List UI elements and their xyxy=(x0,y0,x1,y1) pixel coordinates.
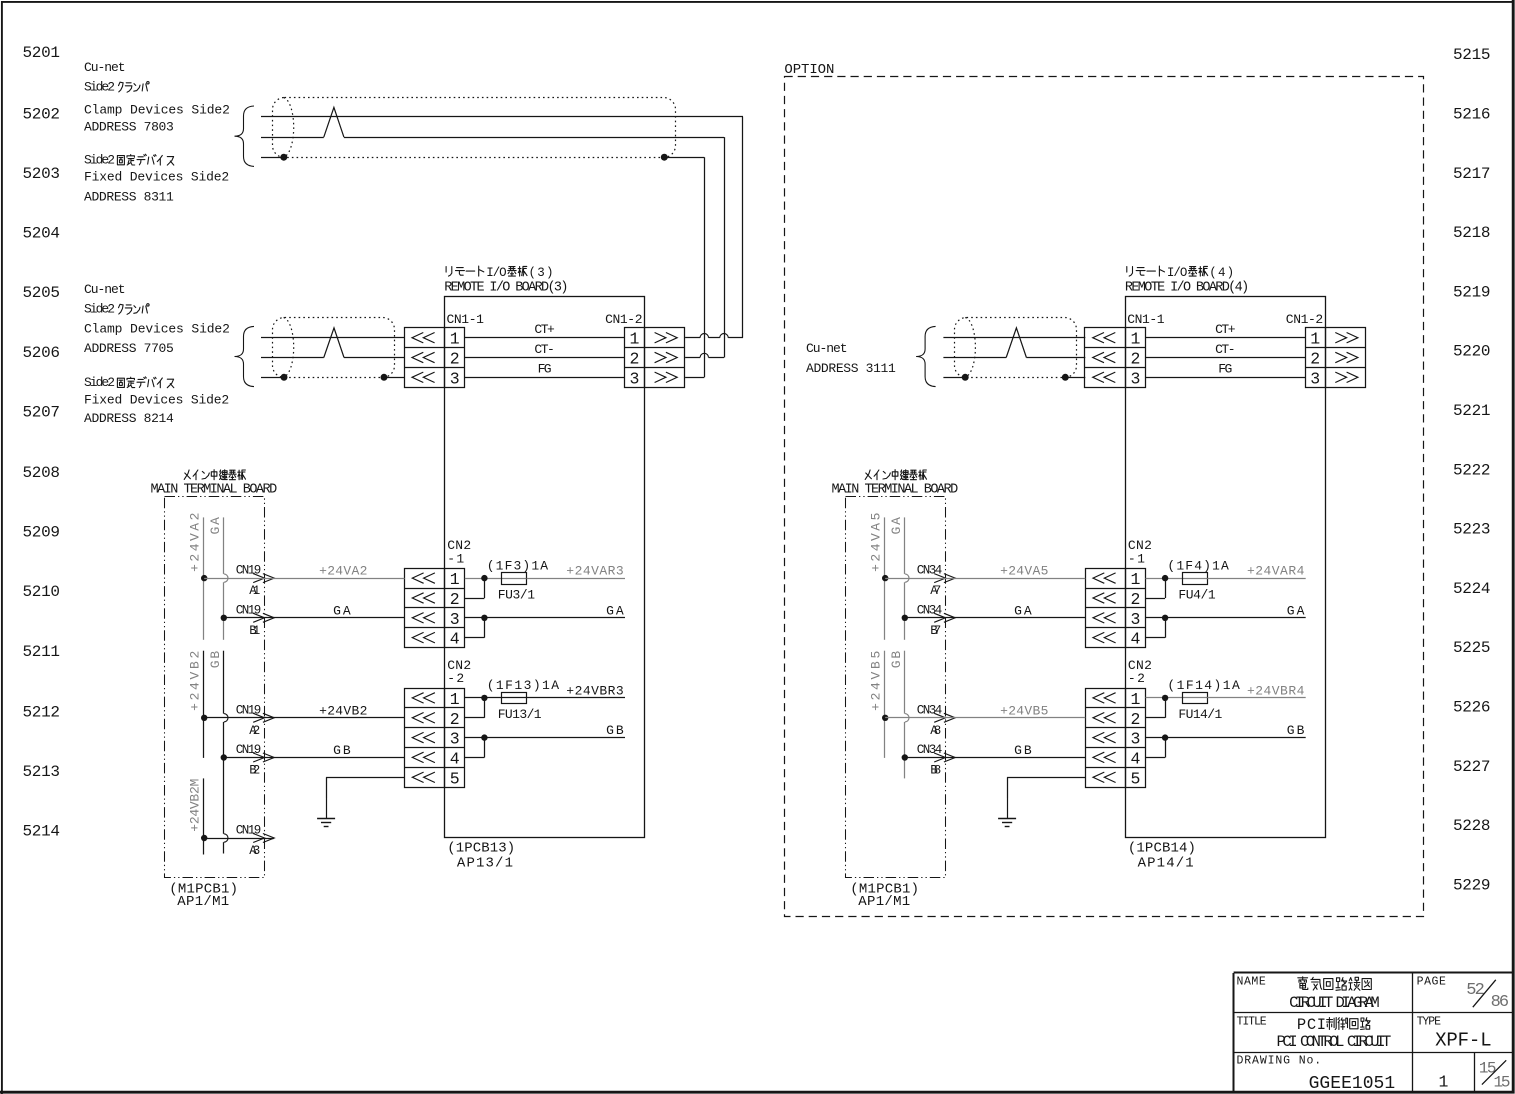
svg-text:3: 3 xyxy=(1130,610,1140,629)
right wire CN2-2 pin5 to ground xyxy=(1007,777,1085,798)
wire cable1 conductor A xyxy=(261,116,743,118)
svg-text:A7: A7 xyxy=(930,584,941,598)
wire cable3 conductor B with crossover xyxy=(943,328,1085,358)
svg-text:5227: 5227 xyxy=(1453,758,1491,776)
svg-text:1: 1 xyxy=(1130,690,1140,709)
svg-text:CT-: CT- xyxy=(534,342,554,357)
svg-text:86: 86 xyxy=(1491,993,1510,1012)
svg-text:Clamp Devices Side2: Clamp Devices Side2 xyxy=(84,322,230,337)
right main terminal board outline (M1PCB1) xyxy=(846,497,946,878)
svg-text:5201: 5201 xyxy=(23,44,61,62)
kanji fixed-device label xyxy=(117,154,173,165)
left terminal arrow CN19 A2 xyxy=(236,703,274,738)
svg-text:1: 1 xyxy=(1130,570,1140,589)
connector CN1-1 board(4) xyxy=(1085,328,1146,389)
svg-text:+24VA2: +24VA2 xyxy=(188,513,203,572)
right jumper CN2-2 pin3 to pin4 xyxy=(1146,738,1166,758)
title field TYPE XPF-L xyxy=(1417,1015,1492,1051)
wire drop CT+ to CN1-2 xyxy=(742,117,744,338)
svg-text:(1F3)1A: (1F3)1A xyxy=(487,558,549,573)
wire CT- board(4) xyxy=(1145,342,1305,358)
svg-text:5217: 5217 xyxy=(1453,165,1491,183)
svg-text:5212: 5212 xyxy=(23,703,61,721)
svg-text:CN1-2: CN1-2 xyxy=(1286,312,1323,327)
grid reference numbers right column xyxy=(1453,46,1491,894)
svg-text:5205: 5205 xyxy=(23,284,61,302)
right jumper CN2-1 pin1 to pin2 xyxy=(1146,578,1166,598)
svg-text:5203: 5203 xyxy=(23,165,61,183)
right junction GA xyxy=(902,615,908,621)
wire FG board(4) xyxy=(1145,362,1305,378)
svg-text:PAGE: PAGE xyxy=(1417,975,1446,988)
left jumper CN2-1 pin1 to pin2 xyxy=(465,578,485,598)
cable shield 3 (dotted) xyxy=(955,318,1077,378)
brace cable3 xyxy=(916,326,936,386)
svg-text:1: 1 xyxy=(1439,1073,1449,1092)
wire CT- board(3) xyxy=(465,342,625,358)
svg-text:Fixed Devices Side2: Fixed Devices Side2 xyxy=(84,170,229,185)
left wire GB (terminal to CN2-2 pin4) xyxy=(224,743,405,758)
svg-text:(1PCB14): (1PCB14) xyxy=(1128,840,1196,856)
svg-text:GB: GB xyxy=(606,723,624,738)
right fuse FU14/1 (1F14)1A xyxy=(1167,678,1240,722)
svg-text:(4): (4) xyxy=(1209,266,1234,280)
svg-text:5210: 5210 xyxy=(23,583,61,601)
right wire GB (CN2-2 pin3 output) xyxy=(1146,723,1306,738)
junction shield-right cable2 xyxy=(381,374,388,381)
junction shield-right cable1 xyxy=(661,154,668,161)
left junction CN2-2 pin3 xyxy=(481,734,487,740)
svg-text:5202: 5202 xyxy=(23,105,61,123)
wire CN1-2 pin2 to drop xyxy=(685,357,724,359)
right fuse FU4/1 (1F4)1A xyxy=(1167,558,1229,602)
svg-text:FG: FG xyxy=(1218,362,1232,377)
wire cable3 shield xyxy=(943,377,1085,379)
svg-text:5214: 5214 xyxy=(23,823,61,841)
svg-text:FU3/1: FU3/1 xyxy=(498,587,535,602)
svg-text:XPF-L: XPF-L xyxy=(1435,1029,1492,1051)
right wire CN2-1 pin1 to fuse FU4/1 xyxy=(1146,578,1183,580)
svg-text:TITLE: TITLE xyxy=(1237,1015,1267,1028)
brace cable2 xyxy=(235,326,255,386)
svg-text:+24VAR4: +24VAR4 xyxy=(1247,564,1305,579)
svg-text:5208: 5208 xyxy=(23,464,61,482)
connector CN2-2 board(4) label xyxy=(1128,658,1152,686)
wire drop FG to CN1-2 xyxy=(704,157,706,377)
left ground xyxy=(326,798,328,818)
svg-text:GA: GA xyxy=(208,517,223,535)
svg-text:+24VA2: +24VA2 xyxy=(319,564,367,579)
cable shield 1 (dotted) xyxy=(273,98,676,158)
svg-text:5207: 5207 xyxy=(23,404,61,422)
svg-text:CT-: CT- xyxy=(1215,342,1235,357)
svg-text:2: 2 xyxy=(450,350,460,369)
svg-text:B2: B2 xyxy=(249,764,260,778)
svg-text:A8: A8 xyxy=(930,724,941,738)
left hop GB vertical over A3 wire xyxy=(224,834,228,842)
left terminal arrow CN19 A3 xyxy=(236,824,274,859)
cable shield 2 (dotted) xyxy=(273,318,395,378)
connector CN1-2 board(3) xyxy=(625,328,685,389)
wire CN1-2 pin3 to drop xyxy=(685,377,704,379)
svg-text:+24VBR4: +24VBR4 xyxy=(1247,683,1305,698)
left bus +24V A vertical xyxy=(203,517,205,639)
board(3) JP name label xyxy=(446,266,553,280)
svg-text:5218: 5218 xyxy=(1453,224,1491,242)
svg-text:GGEE1051: GGEE1051 xyxy=(1309,1074,1396,1094)
katakana kuranpa label xyxy=(119,82,150,93)
left hop GB vertical over +24V B wire xyxy=(224,714,228,722)
svg-text:5229: 5229 xyxy=(1453,876,1491,894)
left bus GB vertical xyxy=(223,651,225,854)
svg-text:2: 2 xyxy=(450,590,460,609)
svg-text:3: 3 xyxy=(450,730,460,749)
svg-text:AP13/1: AP13/1 xyxy=(457,856,513,872)
right wire +24VB5 (terminal to CN2-2 pin2) xyxy=(885,703,1085,718)
left wire +24VA2 (terminal to CN2-1 pin1) xyxy=(204,564,404,579)
cable label Cu-net (3111) xyxy=(806,341,896,376)
left bus +24V B vertical xyxy=(203,651,205,758)
svg-text:+24VBR3: +24VBR3 xyxy=(566,683,623,698)
svg-text:+24VB2: +24VB2 xyxy=(188,651,203,711)
svg-text:+24VB5: +24VB5 xyxy=(1000,703,1048,718)
svg-text:B7: B7 xyxy=(930,624,941,638)
svg-text:Side2: Side2 xyxy=(84,375,115,390)
title block xyxy=(1234,973,1514,1092)
svg-text:I/O: I/O xyxy=(486,266,507,280)
svg-text:2: 2 xyxy=(1130,590,1140,609)
title field PAGE 52/86 xyxy=(1417,975,1510,1012)
wire CN1-2 pin1 to drop xyxy=(685,337,743,339)
svg-text:GB: GB xyxy=(889,651,904,669)
right hop GB vertical over +24V B wire xyxy=(905,714,909,722)
svg-text:REMOTE I/O BOARD(4): REMOTE I/O BOARD(4) xyxy=(1125,280,1249,295)
svg-text:ADDRESS 3111: ADDRESS 3111 xyxy=(806,361,896,376)
right junction CN2-2 pin1 xyxy=(1162,695,1168,701)
svg-text:CIRCUIT DIAGRAM: CIRCUIT DIAGRAM xyxy=(1289,994,1380,1012)
left wire CN2-2 pin1 to fuse FU13/1 xyxy=(465,697,502,699)
svg-text:I/O: I/O xyxy=(1167,266,1188,280)
svg-text:Side2: Side2 xyxy=(84,302,115,317)
svg-text:+24VB5: +24VB5 xyxy=(869,651,884,711)
left wire +24VBR3 (fused output) xyxy=(527,683,626,698)
svg-text:A1: A1 xyxy=(249,584,260,598)
svg-text:GA: GA xyxy=(889,517,904,535)
right terminal arrow CN34 A7 xyxy=(917,564,955,599)
left junction +24VB2M xyxy=(201,835,207,841)
left terminal arrow CN19 A1 xyxy=(236,564,274,599)
connector CN2-2 board(3) xyxy=(405,688,465,788)
svg-text:5: 5 xyxy=(1130,769,1140,788)
svg-text:MAIN TERMINAL BOARD: MAIN TERMINAL BOARD xyxy=(151,482,278,497)
svg-text:A3: A3 xyxy=(249,844,260,858)
connector CN2-1 board(4) xyxy=(1085,568,1145,648)
svg-text:5209: 5209 xyxy=(23,524,61,542)
connector CN2-1 board(4) label xyxy=(1128,538,1152,566)
svg-text:GA: GA xyxy=(1287,603,1305,618)
svg-text:PCI: PCI xyxy=(1297,1016,1326,1034)
svg-text:+24VA5: +24VA5 xyxy=(1000,564,1048,579)
svg-text:4: 4 xyxy=(1130,630,1140,649)
hop CT+ wire over FG drop xyxy=(700,334,708,338)
svg-text:5216: 5216 xyxy=(1453,106,1491,124)
left junction +24V B xyxy=(201,715,207,721)
svg-text:15: 15 xyxy=(1494,1073,1511,1091)
right jumper CN2-1 pin3 to pin4 xyxy=(1146,618,1166,638)
junction shield-right cable3 xyxy=(1062,374,1069,381)
svg-text:FU13/1: FU13/1 xyxy=(498,707,542,722)
connector CN2-1 board(3) xyxy=(405,568,465,648)
left junction CN2-2 pin1 xyxy=(481,695,487,701)
svg-text:3: 3 xyxy=(1310,369,1320,388)
svg-text:AP1/M1: AP1/M1 xyxy=(177,894,229,910)
right bus GA vertical xyxy=(904,517,906,639)
svg-text:1: 1 xyxy=(1130,330,1140,349)
svg-text:CN1-2: CN1-2 xyxy=(605,312,642,327)
svg-text:3: 3 xyxy=(1130,369,1140,388)
wire cable2 conductor A xyxy=(261,337,405,339)
svg-text:5225: 5225 xyxy=(1453,639,1491,657)
svg-text:FU14/1: FU14/1 xyxy=(1178,707,1222,722)
right junction +24V B xyxy=(882,715,888,721)
svg-text:+24VB2M: +24VB2M xyxy=(188,779,203,832)
svg-text:5222: 5222 xyxy=(1453,461,1491,479)
svg-text:CN1-1: CN1-1 xyxy=(447,312,485,327)
svg-text:GB: GB xyxy=(1287,723,1305,738)
right wire GA (CN2-1 pin3 output) xyxy=(1146,603,1306,618)
left bus GA vertical xyxy=(223,517,225,639)
svg-text:GA: GA xyxy=(606,603,624,618)
wire FG board(3) xyxy=(465,362,625,378)
svg-text:GB: GB xyxy=(333,743,351,758)
svg-text:Cu-net: Cu-net xyxy=(84,282,126,297)
title field NAME xyxy=(1237,975,1380,1012)
svg-text:B1: B1 xyxy=(249,624,260,638)
svg-text:2: 2 xyxy=(1310,350,1320,369)
right hop GA vertical over +24V wire xyxy=(905,574,909,582)
svg-text:2: 2 xyxy=(450,710,460,729)
kanji fixed-device label 2 xyxy=(117,377,173,388)
left junction CN2-1 pin3 xyxy=(481,615,487,621)
svg-text:GB: GB xyxy=(1014,743,1032,758)
right wire +24VA5 (terminal to CN2-1 pin1) xyxy=(885,564,1085,579)
svg-text:GA: GA xyxy=(333,603,351,618)
right bus GB vertical xyxy=(904,651,906,779)
svg-text:ADDRESS 7803: ADDRESS 7803 xyxy=(84,120,174,135)
svg-text:PCI CONTROL CIRCUIT: PCI CONTROL CIRCUIT xyxy=(1277,1033,1392,1051)
cable label Cu-net Side2 clamp/fixed devices (7803/8311) xyxy=(84,60,230,204)
svg-text:ADDRESS 8311: ADDRESS 8311 xyxy=(84,190,174,205)
right wire GA (terminal to CN2-1 pin3) xyxy=(905,603,1086,618)
left junction +24V A xyxy=(201,575,207,581)
svg-text:-2: -2 xyxy=(1128,671,1145,686)
svg-text:Cu-net: Cu-net xyxy=(806,341,848,356)
hop CT- wire over FG drop xyxy=(700,353,708,357)
left bus +24VB2M vertical xyxy=(203,778,205,854)
connector CN2-1 board(3) label xyxy=(447,538,471,566)
svg-text:+24VA5: +24VA5 xyxy=(869,513,884,572)
connector CN2-2 board(3) label xyxy=(447,658,471,686)
remote I/O board(4) outline AP14/1 xyxy=(1126,297,1326,838)
wire A3 stub xyxy=(204,838,274,840)
svg-text:(1F13)1A: (1F13)1A xyxy=(487,678,560,693)
svg-text:5213: 5213 xyxy=(23,763,61,781)
right junction GB xyxy=(902,754,908,760)
junction shield-left cable3 xyxy=(962,374,969,381)
right terminal arrow CN34 A8 xyxy=(917,703,955,738)
right jumper CN2-2 pin1 to pin2 xyxy=(1146,698,1166,718)
left wire CN2-2 pin5 to ground xyxy=(326,777,405,798)
remote I/O board(3) outline AP13/1 xyxy=(445,297,645,838)
svg-text:CT+: CT+ xyxy=(1215,322,1236,337)
left wire GA (terminal to CN2-1 pin3) xyxy=(224,603,405,618)
svg-text:1: 1 xyxy=(1310,330,1320,349)
svg-text:AP1/M1: AP1/M1 xyxy=(858,894,910,910)
svg-text:3: 3 xyxy=(1130,730,1140,749)
junction shield-left cable1 xyxy=(280,154,287,161)
svg-text:(1F14)1A: (1F14)1A xyxy=(1167,678,1240,693)
svg-text:Cu-net: Cu-net xyxy=(84,60,126,75)
svg-text:(3): (3) xyxy=(529,266,554,280)
left main terminal board JP label xyxy=(184,470,245,480)
svg-text:REMOTE I/O BOARD(3): REMOTE I/O BOARD(3) xyxy=(444,280,568,295)
right wire +24VBR4 (fused output) xyxy=(1207,683,1306,698)
svg-text:B8: B8 xyxy=(930,764,941,778)
right wire CN2-2 pin1 to fuse FU14/1 xyxy=(1146,697,1183,699)
wire cable2 shield xyxy=(261,377,405,379)
svg-text:A2: A2 xyxy=(249,724,260,738)
title field TITLE xyxy=(1237,1015,1392,1051)
svg-text:5221: 5221 xyxy=(1453,402,1491,420)
svg-text:TYPE: TYPE xyxy=(1417,1015,1441,1028)
svg-text:2: 2 xyxy=(1130,350,1140,369)
right bus +24V A vertical xyxy=(884,517,886,639)
svg-text:Side2: Side2 xyxy=(84,79,115,94)
katakana kuranpa label 2 xyxy=(119,304,150,315)
svg-text:DRAWING No.: DRAWING No. xyxy=(1237,1055,1322,1068)
svg-text:ADDRESS 7705: ADDRESS 7705 xyxy=(84,341,174,356)
wire cable1 shield xyxy=(261,157,704,159)
left jumper CN2-2 pin3 to pin4 xyxy=(465,738,485,758)
left junction GA xyxy=(221,615,227,621)
junction shield-left cable2 xyxy=(281,374,288,381)
left jumper CN2-2 pin1 to pin2 xyxy=(465,698,485,718)
connector CN1-2 board(4) xyxy=(1305,328,1365,389)
svg-text:2: 2 xyxy=(630,350,640,369)
svg-text:FU4/1: FU4/1 xyxy=(1178,587,1215,602)
right terminal arrow CN34 B8 xyxy=(917,743,955,778)
left hop GA vertical over +24V wire xyxy=(224,574,228,582)
svg-text:GA: GA xyxy=(1014,603,1032,618)
svg-text:1: 1 xyxy=(450,330,460,349)
svg-text:1: 1 xyxy=(450,570,460,589)
svg-text:OPTION: OPTION xyxy=(784,62,834,78)
left wire GA (CN2-1 pin3 output) xyxy=(465,603,625,618)
svg-text:NAME: NAME xyxy=(1237,975,1266,988)
left terminal arrow CN19 B2 xyxy=(236,743,274,778)
left junction CN2-1 pin1 xyxy=(481,575,487,581)
svg-text:ADDRESS 8214: ADDRESS 8214 xyxy=(84,411,174,426)
svg-text:5223: 5223 xyxy=(1453,521,1491,539)
left junction GB xyxy=(221,754,227,760)
svg-text:+24VAR3: +24VAR3 xyxy=(566,564,623,579)
svg-text:5220: 5220 xyxy=(1453,343,1491,361)
wire drop CT- to CN1-2 xyxy=(724,137,726,357)
left main terminal board outline (M1PCB1) xyxy=(165,497,265,878)
right bus +24V B vertical xyxy=(884,651,886,758)
svg-text:Side2: Side2 xyxy=(84,153,115,168)
svg-text:Fixed Devices Side2: Fixed Devices Side2 xyxy=(84,392,229,407)
OPTION boundary xyxy=(784,62,1423,917)
left jumper CN2-1 pin3 to pin4 xyxy=(465,618,485,638)
svg-text:5206: 5206 xyxy=(23,344,61,362)
hop CT+ wire over CT- drop xyxy=(720,334,728,338)
right junction CN2-1 pin1 xyxy=(1162,575,1168,581)
svg-text:CT+: CT+ xyxy=(534,322,555,337)
svg-text:2: 2 xyxy=(1130,710,1140,729)
right main terminal board JP label xyxy=(865,470,926,480)
right terminal arrow CN34 B7 xyxy=(917,603,955,638)
wire cable3 conductor A xyxy=(943,337,1085,339)
svg-text:5211: 5211 xyxy=(23,643,61,661)
svg-text:(1F4)1A: (1F4)1A xyxy=(1167,558,1229,573)
svg-text:5226: 5226 xyxy=(1453,699,1491,717)
svg-text:3: 3 xyxy=(450,369,460,388)
svg-text:MAIN TERMINAL BOARD: MAIN TERMINAL BOARD xyxy=(832,482,959,497)
wire cable1 conductor B with crossover xyxy=(261,107,724,137)
svg-text:4: 4 xyxy=(450,630,460,649)
connector CN1-1 board(3) xyxy=(404,328,464,389)
svg-text:5215: 5215 xyxy=(1453,46,1491,64)
wire cable2 conductor B with crossover xyxy=(261,328,405,358)
svg-text:5219: 5219 xyxy=(1453,283,1491,301)
connector CN2-2 board(4) xyxy=(1085,688,1145,788)
svg-text:Clamp Devices Side2: Clamp Devices Side2 xyxy=(84,102,230,117)
svg-text:-1: -1 xyxy=(447,551,464,566)
svg-text:3: 3 xyxy=(630,369,640,388)
grid reference numbers left column xyxy=(23,44,61,841)
right junction CN2-1 pin3 xyxy=(1162,615,1168,621)
svg-text:5228: 5228 xyxy=(1453,817,1491,835)
svg-text:5224: 5224 xyxy=(1453,580,1491,598)
svg-text:GB: GB xyxy=(208,651,223,669)
board(4) JP name label xyxy=(1127,266,1234,280)
svg-text:1: 1 xyxy=(450,690,460,709)
left wire +24VAR3 (fused output) xyxy=(527,564,626,579)
right junction CN2-2 pin3 xyxy=(1162,734,1168,740)
wire CT+ board(4) xyxy=(1145,322,1305,337)
svg-text:+24VB2: +24VB2 xyxy=(319,703,367,718)
svg-text:5: 5 xyxy=(450,769,460,788)
cable label Cu-net Side2 clamp/fixed (7705/8214) xyxy=(84,282,230,426)
right ground xyxy=(1007,798,1009,818)
svg-text:FG: FG xyxy=(538,362,552,377)
right wire GB (terminal to CN2-2 pin4) xyxy=(905,743,1086,758)
left fuse FU13/1 (1F13)1A xyxy=(487,678,560,722)
svg-text:1: 1 xyxy=(630,330,640,349)
svg-text:(1PCB13): (1PCB13) xyxy=(447,840,515,856)
svg-text:5204: 5204 xyxy=(23,225,61,243)
left wire GB (CN2-2 pin3 output) xyxy=(465,723,625,738)
left wire CN2-1 pin1 to fuse FU3/1 xyxy=(465,578,502,580)
right junction +24V A xyxy=(882,575,888,581)
left terminal arrow CN19 B1 xyxy=(236,603,274,638)
svg-text:4: 4 xyxy=(1130,749,1140,768)
wire CT+ board(3) xyxy=(465,322,625,337)
svg-text:AP14/1: AP14/1 xyxy=(1138,856,1194,872)
svg-text:-2: -2 xyxy=(447,671,464,686)
svg-text:4: 4 xyxy=(450,749,460,768)
